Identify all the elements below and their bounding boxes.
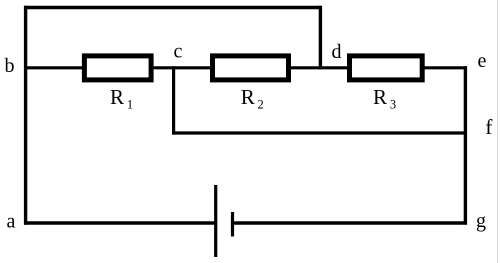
resistor R1: [84, 56, 151, 80]
svg-text:f: f: [485, 115, 493, 139]
wire bottom left a to battery: [24, 221, 216, 224]
wire main horizontal b to R1: [24, 66, 84, 69]
wire vertical drop from top to node d: [319, 6, 322, 70]
resistor R3: [350, 56, 423, 80]
svg-text:c: c: [174, 41, 183, 63]
svg-text:a: a: [7, 211, 16, 233]
svg-text:d: d: [332, 41, 342, 63]
wire R2 to R3 through node d: [289, 66, 349, 69]
wire horizontal c to f: [172, 131, 467, 134]
wire top horizontal b-top to d-top: [24, 6, 322, 9]
wire bottom right battery to g: [233, 221, 468, 224]
wire R3 to node e: [423, 66, 467, 69]
wire left vertical b-a: [24, 6, 27, 225]
svg-text:R3: R3: [373, 85, 396, 112]
wire right vertical e-f-g: [464, 66, 467, 224]
svg-text:e: e: [478, 50, 487, 72]
battery long plate (positive): [214, 185, 217, 257]
svg-text:b: b: [5, 55, 15, 77]
wire vertical drop from node c: [172, 66, 175, 134]
resistor R2: [213, 56, 289, 80]
wire R1 to R2 through node c: [152, 66, 213, 69]
page right edge faint border: [497, 0, 499, 263]
battery short plate (negative): [231, 212, 234, 237]
svg-text:R2: R2: [241, 85, 264, 112]
svg-text:R1: R1: [110, 85, 133, 112]
svg-text:g: g: [476, 210, 486, 232]
